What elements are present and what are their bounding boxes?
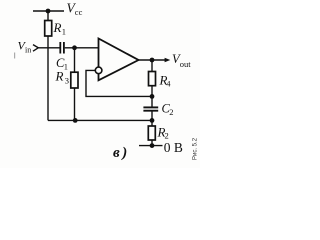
wire C1 to op-amp noninverting input: [65, 47, 99, 49]
svg-text:out: out: [180, 59, 192, 69]
wire 0V stub: [139, 145, 163, 147]
op-amp U1 triangle: [99, 39, 139, 81]
wire R4 bottom lead: [151, 86, 153, 107]
svg-text:1: 1: [62, 27, 66, 37]
resistor R2: [148, 126, 155, 140]
resistor R4: [149, 72, 156, 86]
svg-text:Рис. 5.2: Рис. 5.2: [193, 137, 199, 160]
node Vin input chevron: [33, 45, 38, 52]
svg-text:R: R: [53, 20, 62, 35]
junction 0V node dot: [150, 143, 155, 148]
junction C2/R2/bottom-rail node dot: [150, 118, 155, 123]
svg-text:cc: cc: [75, 7, 83, 17]
wire R3 bottom lead to bottom rail: [74, 88, 76, 120]
op-amp U1 inverting input circle: [95, 67, 102, 74]
capacitor C1: [59, 42, 61, 54]
svg-text:1: 1: [64, 62, 68, 72]
junction R3/bottom-rail dot: [73, 118, 78, 123]
svg-text:0 В: 0 В: [164, 140, 183, 155]
junction C1/R3 node dot: [72, 45, 77, 50]
resistor R3: [71, 72, 78, 88]
junction output node dot: [150, 58, 155, 63]
svg-text:in: in: [25, 46, 31, 55]
wire feedback from inverting input to R4/C2 node: [86, 70, 152, 96]
wire R1 top lead: [47, 11, 49, 21]
resistor R1: [45, 21, 52, 37]
wire op-amp output: [139, 59, 167, 61]
wire R1 bottom lead down to bottom rail: [47, 36, 49, 120]
junction R4/C2/feedback node dot: [150, 94, 155, 99]
svg-text:4: 4: [166, 79, 171, 89]
wire C2 bottom lead: [151, 111, 153, 126]
wire Vin to C1: [38, 47, 60, 49]
wire bottom rail: [48, 119, 152, 121]
node Vout arrowhead: [165, 58, 171, 63]
junction Vcc rail dot: [46, 9, 51, 14]
wire R3 top lead: [74, 48, 76, 72]
svg-text:в): в): [113, 145, 130, 161]
wire Vcc top rail: [33, 10, 64, 12]
svg-text:3: 3: [65, 75, 69, 85]
wire R4 top lead: [151, 60, 153, 72]
capacitor C2: [143, 106, 158, 108]
wire R2 bottom lead: [151, 140, 153, 146]
decorative scan artifact: [14, 53, 15, 59]
svg-text:2: 2: [169, 107, 173, 117]
svg-text:R: R: [55, 69, 64, 84]
